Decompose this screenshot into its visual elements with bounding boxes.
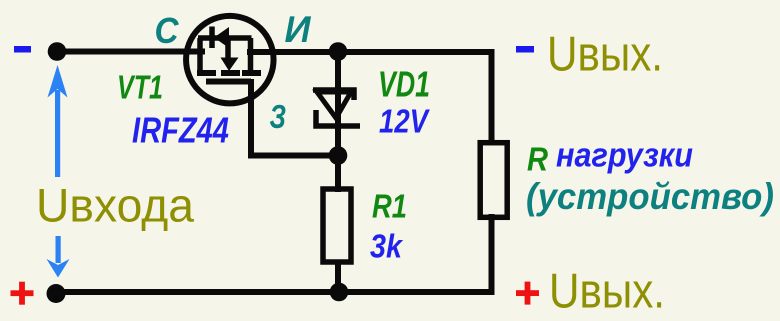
wire top left from minus node to transistor [57,49,202,55]
svg-text:Uвых.: Uвых. [549,264,665,318]
svg-text:Uвых.: Uвых. [547,28,663,82]
wire gate lead from transistor to node A [251,82,336,156]
zener diode VD1 [313,90,360,126]
node A gate junction [329,146,348,165]
svg-text:нагрузки: нагрузки [556,137,693,175]
wire right lower from load resistor to bottom corner [489,217,495,292]
wire zener/R1 branch vertical [335,52,341,190]
terminal plus bottom right [516,282,539,305]
svg-text:12V: 12V [379,102,430,139]
arrow Uвхода (double headed blue) [47,65,70,278]
svg-text:R: R [527,141,548,178]
node bottom left [47,284,66,303]
svg-text:И: И [285,9,312,50]
svg-text:IRFZ44: IRFZ44 [132,109,229,150]
node top at zener branch [329,42,348,61]
svg-text:VT1: VT1 [117,68,163,105]
svg-text:С: С [155,10,180,51]
svg-text:R1: R1 [372,188,407,225]
wire bottom rail [56,289,492,295]
svg-text:Uвхода: Uвхода [36,179,195,232]
wire top right from transistor to output corner [250,52,492,142]
transistor VT1 (power MOSFET) [186,16,273,104]
resistor R1 [323,189,351,262]
svg-text:VD1: VD1 [378,64,430,105]
svg-text:(устройство): (устройство) [526,176,774,217]
resistor R load [480,143,507,218]
wire R1 bottom lead [335,263,341,292]
terminal minus top right [516,46,534,53]
terminal minus top left [14,46,31,53]
svg-text:З: З [270,98,287,135]
node top left [48,42,67,61]
svg-text:3k: 3k [370,228,403,265]
node bottom at R1 [330,283,349,302]
terminal plus bottom left [11,282,34,305]
